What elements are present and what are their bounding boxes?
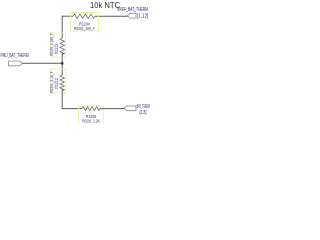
wire top left segment	[62, 15, 73, 17]
svg-text:VREF_BAT_THERM: VREF_BAT_THERM	[117, 7, 148, 13]
highlight box R1205	[79, 106, 104, 124]
svg-text:R0201_2.2K: R0201_2.2K	[82, 119, 100, 123]
svg-text:[13]: [13]	[140, 110, 147, 116]
svg-text:R1213: R1213	[54, 78, 59, 89]
dotted underline	[112, 8, 136, 10]
junction	[61, 62, 63, 64]
off-page connector BAT_THERM tag	[124, 106, 136, 111]
resistor R1205	[82, 107, 100, 111]
highlight box R1204	[71, 13, 99, 32]
svg-text:[1,12]: [1,12]	[137, 14, 149, 20]
resistor R1211	[60, 38, 65, 54]
wire vertical upper	[61, 16, 63, 39]
off-page connector left tag	[9, 61, 23, 66]
svg-text:R0201_10K_F: R0201_10K_F	[74, 26, 95, 31]
resistor R1204	[73, 14, 95, 18]
svg-text:R1211: R1211	[54, 43, 59, 54]
highlight box R1211	[51, 33, 66, 57]
off-page connector VREF tag	[128, 13, 137, 18]
wire left horizontal	[23, 62, 62, 64]
svg-text:PMU_BAT_THERM: PMU_BAT_THERM	[1, 53, 29, 59]
resistor R1213	[60, 75, 65, 91]
wire bottom right	[100, 108, 124, 110]
highlight box R1213	[51, 69, 67, 93]
wire top horizontal	[95, 15, 128, 17]
wire bottom vertical	[62, 89, 82, 109]
wire between resistors	[61, 53, 63, 75]
